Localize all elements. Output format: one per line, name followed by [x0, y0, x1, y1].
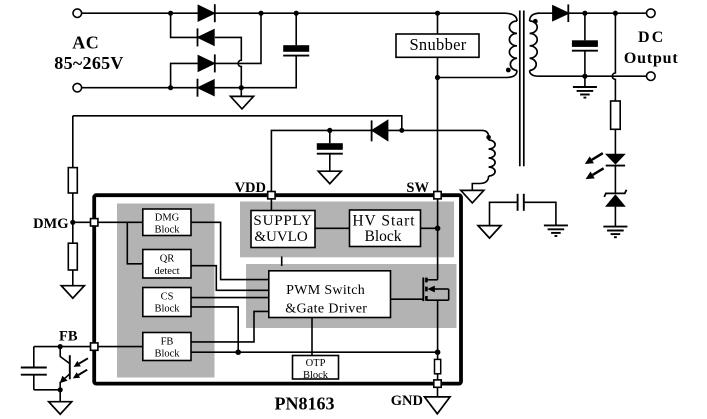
svg-text:Output: Output	[624, 50, 679, 67]
svg-text:VDD: VDD	[235, 180, 266, 196]
svg-text:SW: SW	[406, 180, 429, 196]
svg-text:&Gate Driver: &Gate Driver	[285, 302, 367, 317]
svg-text:FB: FB	[59, 329, 78, 345]
svg-text:Block: Block	[364, 228, 401, 245]
svg-text:Block: Block	[154, 224, 180, 235]
svg-text:OTP: OTP	[306, 358, 326, 369]
svg-text:Snubber: Snubber	[409, 35, 466, 54]
svg-text:detect: detect	[154, 266, 179, 277]
svg-text:QR: QR	[160, 253, 175, 264]
svg-text:&UVLO: &UVLO	[254, 229, 307, 245]
svg-text:Block: Block	[303, 370, 329, 381]
svg-text:DMG: DMG	[155, 213, 180, 224]
svg-text:HV Start: HV Start	[352, 213, 415, 230]
svg-text:PWM Switch: PWM Switch	[286, 283, 365, 298]
svg-text:GND: GND	[391, 393, 423, 409]
svg-text:AC: AC	[72, 33, 99, 53]
svg-text:PN8163: PN8163	[275, 394, 335, 414]
svg-text:SUPPLY: SUPPLY	[253, 213, 312, 229]
svg-text:FB: FB	[161, 336, 174, 347]
svg-text:CS: CS	[161, 291, 174, 302]
svg-text:Block: Block	[154, 304, 180, 315]
svg-text:DC: DC	[638, 29, 666, 46]
svg-text:85~265V: 85~265V	[54, 53, 123, 73]
svg-text:Block: Block	[154, 349, 180, 360]
svg-text:DMG: DMG	[33, 216, 68, 232]
